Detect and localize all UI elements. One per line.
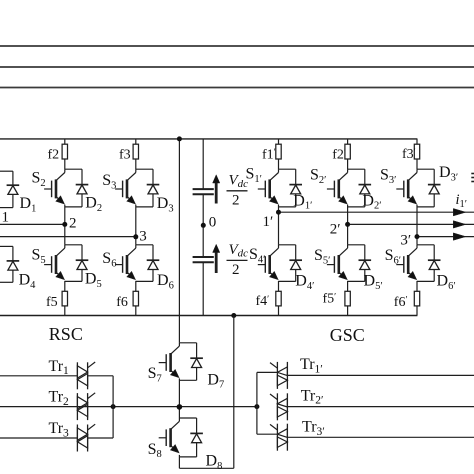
svg-text:1: 1 xyxy=(2,210,10,226)
svg-text:2: 2 xyxy=(232,262,240,278)
svg-text:GSC: GSC xyxy=(330,325,365,345)
svg-text:3′: 3′ xyxy=(400,233,411,249)
svg-text:2: 2 xyxy=(69,216,77,232)
svg-text:f5: f5 xyxy=(46,295,58,310)
svg-text:RSC: RSC xyxy=(49,324,83,344)
svg-text:2: 2 xyxy=(232,192,240,208)
svg-text:f6: f6 xyxy=(116,295,128,310)
svg-text:f3: f3 xyxy=(119,147,131,162)
svg-text:0: 0 xyxy=(209,214,217,230)
svg-text:3: 3 xyxy=(139,229,147,245)
svg-text:f2: f2 xyxy=(48,147,60,162)
svg-text:2′: 2′ xyxy=(330,222,341,238)
svg-text:1′: 1′ xyxy=(263,214,274,230)
